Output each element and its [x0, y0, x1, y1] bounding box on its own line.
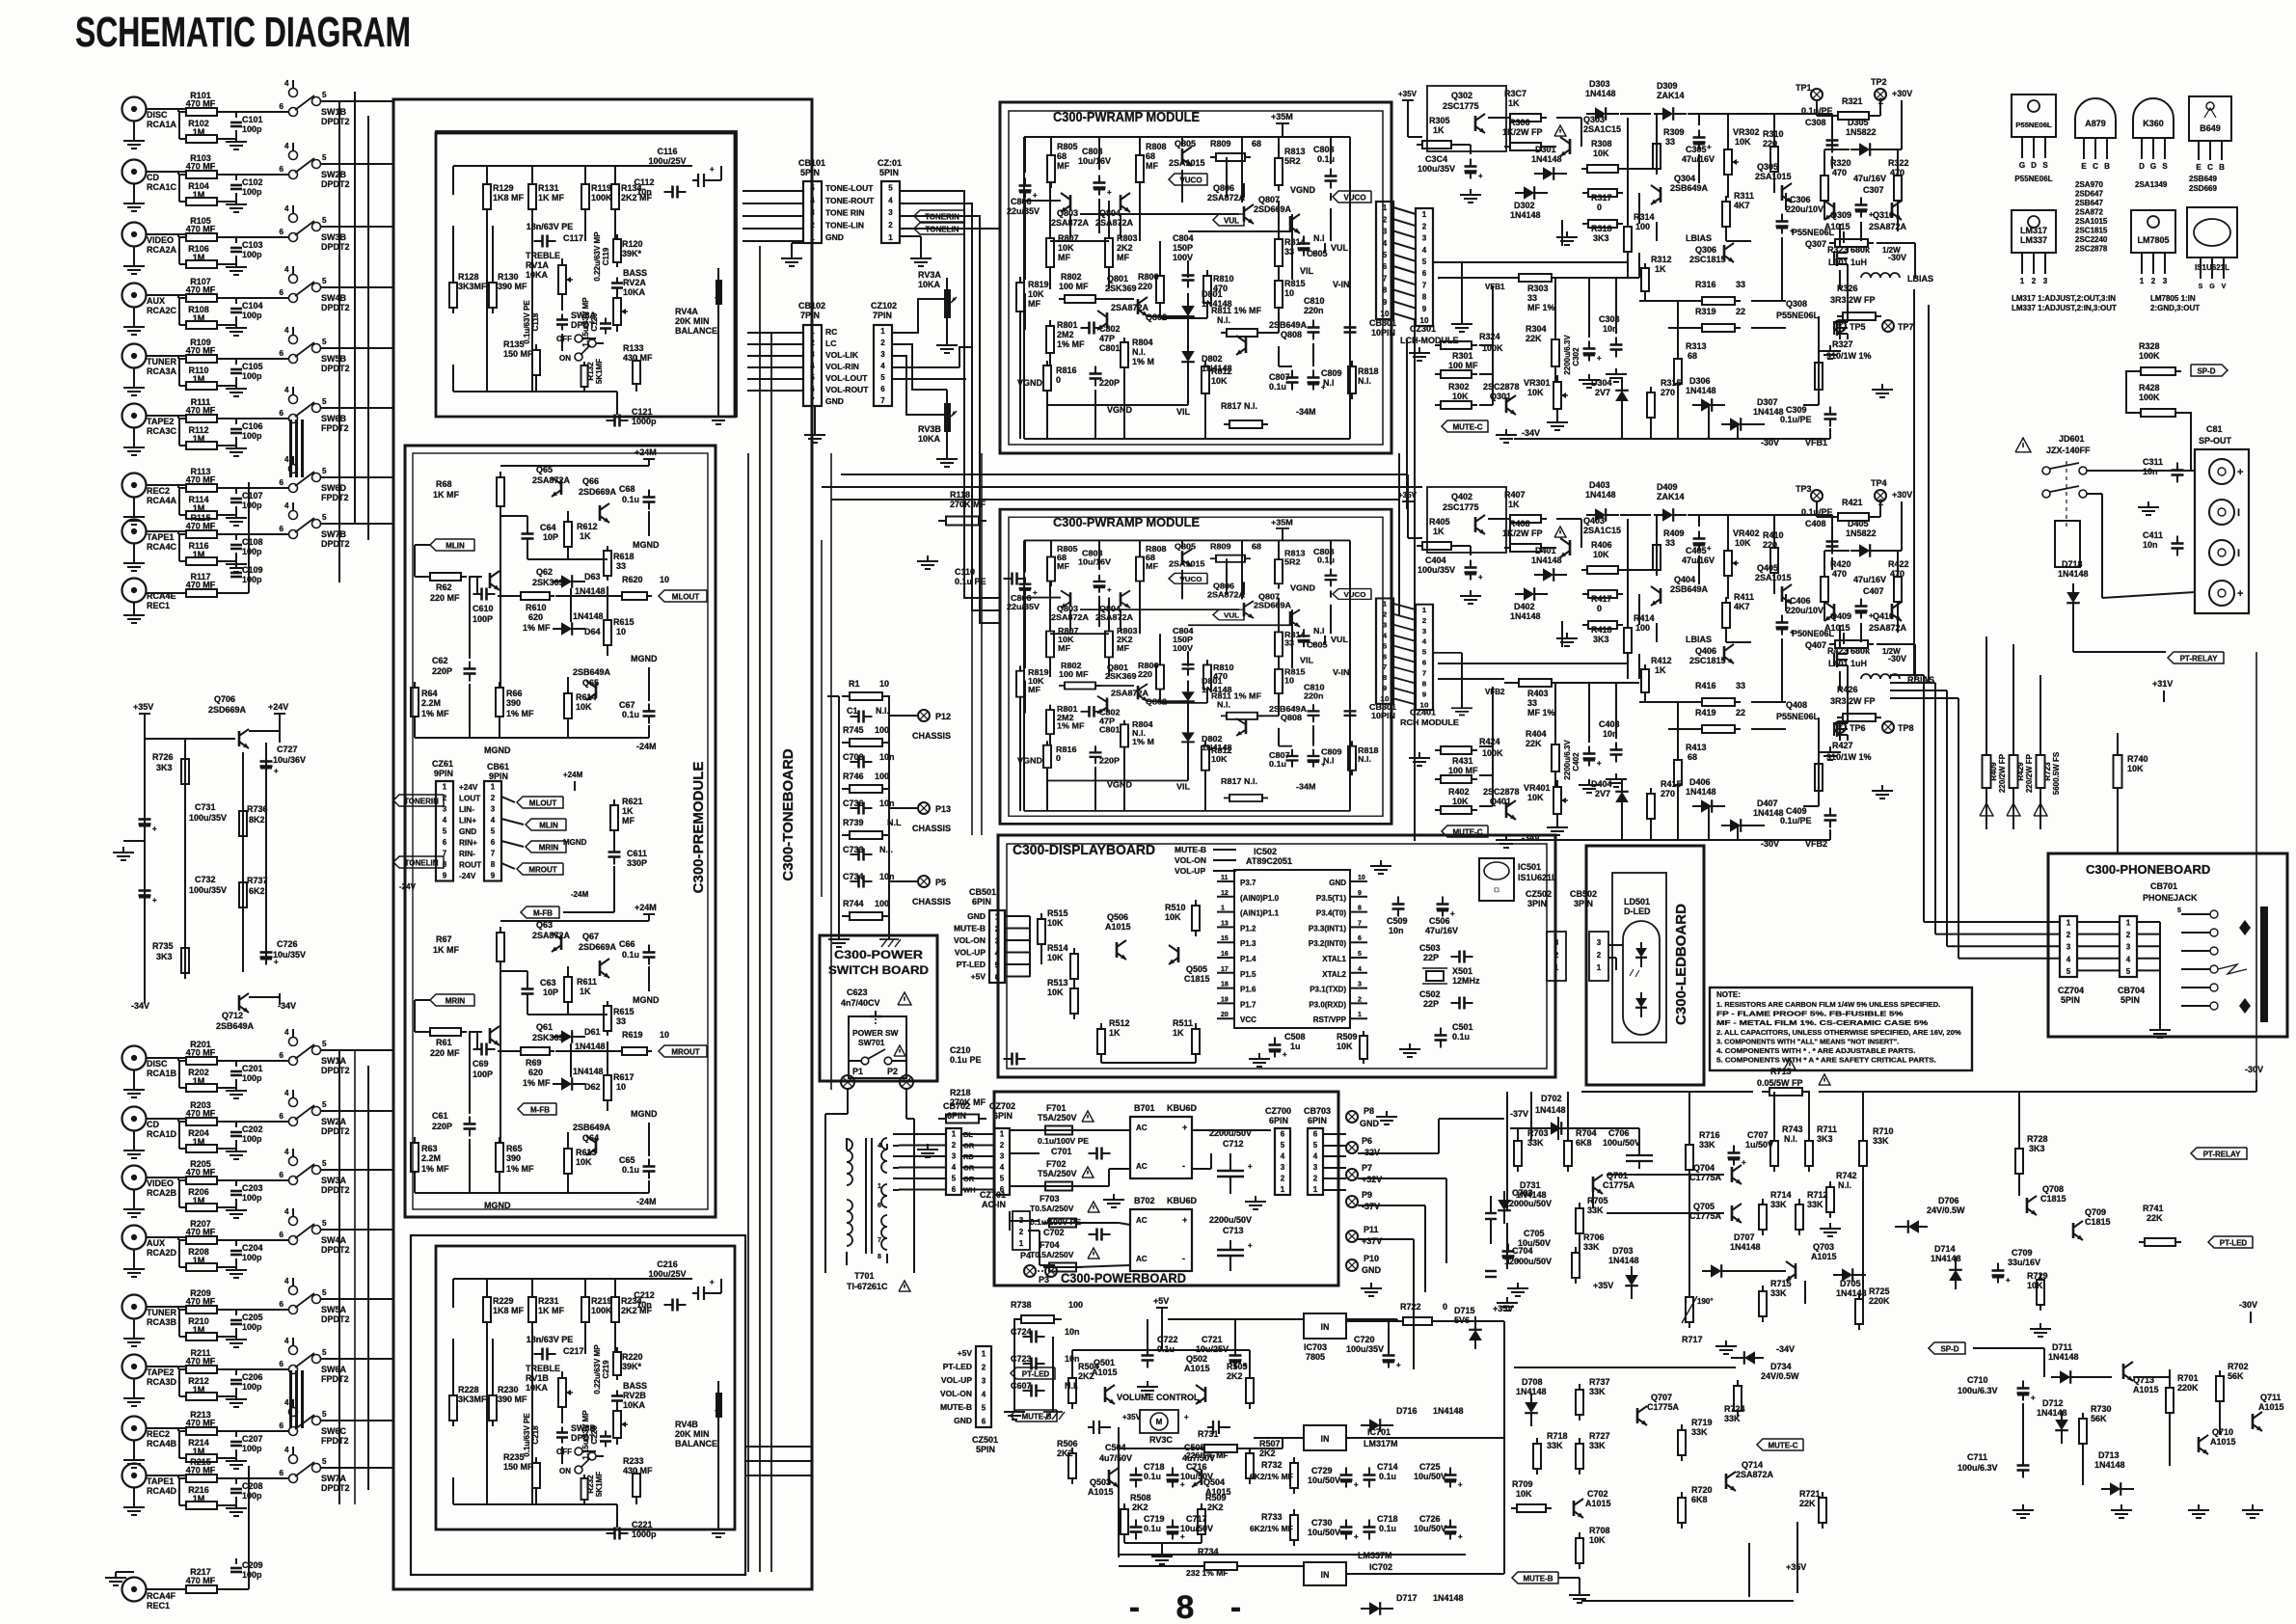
test point TP5 [1834, 320, 1846, 332]
svg-text:100 MF: 100 MF [1448, 361, 1478, 370]
svg-text:VOL-UP: VOL-UP [1175, 866, 1205, 876]
capacitor N.I [1349, 704, 1351, 711]
svg-text:Q66: Q66 [582, 476, 599, 486]
svg-text:3R3 2W FP: 3R3 2W FP [1830, 696, 1876, 706]
svg-text:R804: R804 [1132, 719, 1153, 728]
svg-text:10K: 10K [1165, 912, 1181, 922]
ground [1829, 345, 1831, 351]
svg-text:D708: D708 [1522, 1377, 1543, 1387]
svg-text:R406: R406 [1591, 540, 1612, 550]
wire [1040, 944, 1042, 964]
svg-text:A1015: A1015 [1088, 1487, 1114, 1497]
svg-text:1N4148: 1N4148 [1753, 808, 1784, 818]
svg-text:1% M: 1% M [1132, 737, 1154, 745]
svg-text:R733: R733 [1261, 1512, 1283, 1522]
capacitor C806 [1024, 178, 1026, 186]
test point TP2 [1875, 490, 1886, 501]
svg-text:R744: R744 [843, 899, 864, 908]
svg-text:D712: D712 [2042, 1398, 2064, 1408]
svg-text:DPDT2: DPDT2 [321, 303, 350, 312]
svg-text:1: 1 [2020, 277, 2025, 285]
svg-text:6PIN: 6PIN [972, 897, 991, 907]
svg-text:A879: A879 [2085, 119, 2106, 128]
svg-text:+: + [1742, 1158, 1746, 1167]
svg-text:2: 2 [2032, 277, 2037, 285]
svg-text:0.22u/63V MP: 0.22u/63V MP [593, 231, 602, 282]
svg-text:C305: C305 [1686, 145, 1707, 154]
svg-text:R410: R410 [1763, 530, 1784, 540]
svg-text:2SC1775: 2SC1775 [1443, 101, 1479, 111]
svg-text:MRIN: MRIN [446, 996, 466, 1005]
svg-text:39K*: 39K* [622, 249, 642, 258]
wire driver rails [1438, 277, 1504, 279]
svg-text:POWER SW: POWER SW [852, 1028, 899, 1038]
wire [453, 1278, 692, 1280]
svg-text:MF: MF [1146, 561, 1158, 570]
ground [133, 1204, 135, 1209]
svg-text:C1815: C1815 [2085, 1217, 2111, 1227]
svg-text:+: + [2237, 588, 2243, 600]
svg-text:C208: C208 [242, 1481, 263, 1491]
ground [133, 1263, 135, 1269]
svg-text:5: 5 [1281, 1141, 1285, 1150]
svg-text:PT-RELAY: PT-RELAY [2203, 1150, 2241, 1158]
svg-text:1000p: 1000p [632, 417, 657, 426]
svg-text:Q703: Q703 [1813, 1242, 1834, 1252]
svg-text:KBU6D: KBU6D [1167, 1196, 1198, 1205]
ground [1013, 1406, 1015, 1412]
svg-text:A1015: A1015 [1184, 1364, 1210, 1373]
svg-text:10K: 10K [1593, 550, 1609, 559]
svg-text:RCA3A: RCA3A [147, 366, 177, 376]
capacitor C802 [1081, 711, 1090, 713]
svg-text:2200u/6.3V: 2200u/6.3V [1563, 335, 1572, 375]
capacitor C208 [235, 1478, 237, 1484]
svg-text:10K: 10K [1028, 289, 1044, 299]
svg-text:100u/50V: 100u/50V [1603, 1138, 1640, 1148]
svg-text:10n: 10n [879, 872, 895, 881]
ground [122, 847, 124, 853]
svg-text:LM7805 1:IN: LM7805 1:IN [2150, 294, 2196, 303]
svg-text:+35M: +35M [1271, 518, 1293, 527]
svg-text:C701: C701 [1051, 1147, 1072, 1156]
svg-text:DPDT: DPDT [571, 1433, 595, 1443]
svg-text:R704: R704 [1576, 1128, 1597, 1138]
svg-text:100: 100 [875, 725, 889, 735]
svg-text:3: 3 [2126, 943, 2131, 952]
svg-text:2SD669: 2SD669 [2189, 184, 2217, 193]
svg-text:8: 8 [1383, 674, 1387, 682]
svg-text:C407: C407 [1863, 586, 1884, 596]
capacitor C805 N.I [1303, 236, 1305, 244]
left bus bank A [354, 92, 356, 524]
svg-text:DPDT2: DPDT2 [321, 1314, 350, 1324]
svg-text:R815: R815 [1284, 667, 1306, 676]
svg-text:R119: R119 [591, 183, 611, 193]
svg-text:R62: R62 [436, 582, 452, 592]
ground [1588, 374, 1590, 380]
svg-text:1: 1 [1358, 1012, 1362, 1018]
svg-text:10K: 10K [1211, 376, 1228, 386]
svg-text:+: + [1180, 1480, 1185, 1489]
phone jack contacts [2210, 910, 2218, 918]
svg-text:1N4148: 1N4148 [1836, 1288, 1867, 1298]
svg-text:10: 10 [1284, 676, 1294, 685]
svg-text:IN: IN [1321, 1570, 1330, 1580]
svg-text:R120: R120 [622, 239, 643, 249]
connector CZ501 6PIN [976, 1346, 991, 1427]
svg-text:3R3 2W FP: 3R3 2W FP [1830, 295, 1876, 305]
svg-text:A1015: A1015 [1585, 1499, 1611, 1508]
capacitor C202 [235, 1122, 237, 1127]
svg-text:Q806: Q806 [1213, 183, 1234, 193]
svg-text:A1015: A1015 [2210, 1437, 2236, 1447]
svg-text:R819: R819 [1028, 280, 1049, 289]
svg-text:C107: C107 [242, 491, 263, 501]
svg-text:R128: R128 [458, 272, 479, 282]
svg-text:2:GND,3:OUT: 2:GND,3:OUT [2150, 304, 2200, 312]
wire [415, 544, 430, 546]
capacitor C206 [235, 1369, 237, 1375]
crystal X501 [1426, 971, 1444, 981]
svg-text:9: 9 [1422, 305, 1427, 313]
svg-text:10PIN: 10PIN [1371, 711, 1395, 719]
svg-text:7: 7 [1422, 669, 1426, 677]
svg-text:100p: 100p [242, 1570, 262, 1580]
svg-text:+: + [1707, 544, 1712, 553]
svg-text:10P: 10P [543, 988, 558, 997]
svg-text:2SC1775: 2SC1775 [1443, 502, 1479, 512]
svg-text:CHASSIS: CHASSIS [912, 897, 951, 907]
svg-text:4: 4 [284, 1207, 289, 1216]
svg-text:R509: R509 [1337, 1032, 1358, 1042]
svg-text:D403: D403 [1589, 480, 1610, 490]
svg-text:R515: R515 [1047, 908, 1068, 918]
svg-text:CB702: CB702 [943, 1101, 970, 1111]
svg-text:R705: R705 [1587, 1196, 1608, 1205]
svg-text:D305: D305 [1848, 118, 1869, 127]
resistor R229 [486, 1279, 488, 1296]
svg-text:-: - [1182, 1161, 1185, 1171]
svg-text:10K: 10K [1593, 149, 1609, 158]
svg-text:VOL-ON: VOL-ON [940, 1389, 972, 1398]
svg-text:JZX-140FF: JZX-140FF [2046, 446, 2091, 455]
svg-text:100p: 100p [242, 1134, 262, 1144]
svg-text:VOL-LOUT: VOL-LOUT [825, 373, 868, 383]
svg-text:+: + [1478, 172, 1483, 180]
svg-text:D303: D303 [1589, 79, 1610, 89]
svg-text:2: 2 [1554, 951, 1559, 960]
wire P pins to bottom right [1358, 1152, 1439, 1154]
svg-text:1N5822: 1N5822 [1846, 528, 1877, 538]
svg-text:SW1B: SW1B [321, 107, 347, 117]
svg-text:SWITCH BOARD: SWITCH BOARD [828, 963, 929, 977]
svg-text:D409: D409 [1657, 482, 1678, 492]
board box tone L outer [436, 131, 737, 417]
svg-text:VGND: VGND [1107, 405, 1133, 415]
svg-text:C104: C104 [242, 301, 263, 311]
svg-text:C734: C734 [843, 872, 864, 881]
board box C300-PWRAMP MODULE [1000, 509, 1391, 824]
svg-text:Q67: Q67 [582, 932, 599, 941]
svg-text:C706: C706 [1608, 1128, 1630, 1138]
board box C300-LEDBOARD [1586, 846, 1704, 1085]
net label PT-LED [1011, 1367, 1055, 1379]
resistor R816 [1046, 741, 1048, 744]
svg-text:REC1: REC1 [147, 1601, 170, 1610]
svg-text:2SC2878: 2SC2878 [2075, 245, 2108, 254]
svg-text:I: I [2237, 507, 2240, 519]
svg-text:4: 4 [878, 1143, 881, 1150]
switch SW701 POWER SW box [849, 1016, 906, 1078]
svg-text:CB701: CB701 [2150, 881, 2177, 891]
svg-text:220P: 220P [1099, 756, 1120, 765]
svg-text:D306: D306 [1689, 376, 1711, 386]
svg-text:D402: D402 [1514, 602, 1535, 611]
svg-text:13: 13 [1221, 920, 1229, 927]
RCA jack RCA1C [122, 160, 147, 184]
svg-text:5: 5 [322, 91, 327, 99]
svg-text:5: 5 [2177, 907, 2181, 914]
svg-text:CB102: CB102 [798, 301, 825, 311]
svg-text:R725: R725 [1869, 1286, 1890, 1296]
svg-text:2SB647: 2SB647 [2075, 199, 2103, 207]
svg-text:FPDT2: FPDT2 [321, 1374, 349, 1384]
svg-text:5600.5W FS: 5600.5W FS [2052, 751, 2061, 795]
resistor R819 [1019, 665, 1021, 670]
svg-text:CB502: CB502 [1570, 889, 1597, 899]
svg-text:R506: R506 [1057, 1439, 1078, 1448]
svg-text:3: 3 [1358, 982, 1362, 988]
capacitor C806 [1024, 578, 1026, 584]
wire mid horizontals [841, 474, 1408, 475]
svg-text:S: S [2162, 162, 2168, 171]
svg-text:RCA4F: RCA4F [147, 1591, 176, 1601]
svg-text:4: 4 [284, 1148, 289, 1156]
ground [1829, 1223, 1831, 1229]
svg-text:OFF: OFF [556, 1448, 572, 1456]
svg-text:R301: R301 [1452, 351, 1473, 361]
svg-text:100u/25V: 100u/25V [648, 1269, 686, 1279]
svg-text:1: 1 [1221, 906, 1225, 912]
svg-text:R810: R810 [1213, 274, 1234, 284]
svg-text:100p: 100p [242, 1322, 262, 1332]
svg-text:VCC: VCC [1240, 1015, 1256, 1024]
svg-text:C300-PWRAMP MODULE: C300-PWRAMP MODULE [1053, 516, 1200, 529]
svg-text:P1.3: P1.3 [1240, 939, 1256, 948]
svg-text:+35M: +35M [1271, 112, 1293, 122]
svg-text:CZ:01: CZ:01 [878, 158, 902, 168]
svg-text:5: 5 [1422, 648, 1426, 656]
svg-text:Q405: Q405 [1757, 563, 1778, 573]
ground [235, 553, 237, 558]
svg-text:RV2B: RV2B [623, 1391, 646, 1400]
svg-text:C300-PHONEBOARD: C300-PHONEBOARD [2086, 862, 2210, 877]
svg-text:LM317 1:ADJUST,2:OUT,3:IN: LM317 1:ADJUST,2:OUT,3:IN [2012, 294, 2116, 303]
svg-text:R806: R806 [1138, 661, 1159, 669]
svg-text:C217: C217 [563, 1346, 584, 1356]
resistor R816 [1046, 361, 1048, 365]
resistor R818 [1351, 741, 1353, 745]
svg-text:Q808: Q808 [1281, 330, 1302, 339]
svg-text:R134: R134 [621, 183, 642, 193]
board box C300-DISPLAYBOARD [998, 835, 1555, 1077]
svg-text:220K: 220K [1869, 1296, 1890, 1306]
svg-text:VFB1: VFB1 [1485, 283, 1505, 291]
svg-text:-34V: -34V [1776, 1344, 1795, 1354]
svg-text:-30V: -30V [1888, 654, 1906, 663]
inner box ledboard [1612, 873, 1666, 1042]
svg-text:DPDT2: DPDT2 [321, 1245, 350, 1255]
svg-text:5PIN: 5PIN [2120, 995, 2140, 1005]
resistor R403 [1513, 682, 1519, 684]
svg-text:VR401: VR401 [1524, 783, 1551, 793]
svg-text:100: 100 [875, 899, 889, 908]
wire [1393, 604, 1416, 609]
svg-text:1: 1 [995, 912, 1000, 921]
svg-text:1. RESISTORS ARE CARBON FILM 1: 1. RESISTORS ARE CARBON FILM 1/4W 5% UNL… [1716, 1000, 1940, 1009]
svg-text:4: 4 [284, 79, 289, 88]
svg-text:1N4148: 1N4148 [1730, 1242, 1761, 1252]
capacitor C104 [235, 298, 237, 304]
svg-text:R509: R509 [1205, 1493, 1227, 1502]
svg-text:C708: C708 [843, 752, 864, 762]
svg-text:68: 68 [1252, 542, 1261, 551]
svg-text:TP3: TP3 [1796, 484, 1812, 494]
svg-text:IC701: IC701 [1367, 1427, 1391, 1437]
svg-text:100p: 100p [242, 124, 262, 134]
ground [1147, 1381, 1148, 1387]
svg-text:910/1W 1%: 910/1W 1% [1826, 351, 1872, 361]
svg-text:1K: 1K [1508, 98, 1520, 108]
svg-text:9: 9 [491, 872, 496, 880]
svg-text:FPDT2: FPDT2 [321, 493, 349, 502]
svg-text:+: + [1354, 1532, 1359, 1541]
resistor R303 [1513, 277, 1519, 279]
svg-text:1K8 MF: 1K8 MF [493, 1306, 525, 1315]
wire switch stubs bank B [320, 1049, 393, 1051]
svg-text:SW4B: SW4B [321, 293, 347, 303]
svg-text:16: 16 [1221, 951, 1229, 958]
ground [133, 198, 135, 203]
svg-text:IC703: IC703 [1304, 1342, 1327, 1352]
svg-text:10K: 10K [1527, 388, 1544, 397]
svg-text:1: 1 [888, 233, 893, 242]
svg-text:5: 5 [322, 338, 327, 346]
chassis ground [888, 934, 890, 939]
wire [2087, 470, 2195, 472]
svg-text:6: 6 [280, 228, 284, 236]
svg-text:4: 4 [284, 1398, 289, 1407]
svg-text:A1015: A1015 [1092, 1367, 1118, 1377]
svg-text:RCA2D: RCA2D [147, 1248, 177, 1258]
svg-text:-24M: -24M [571, 890, 589, 899]
svg-text:3: 3 [1554, 938, 1559, 947]
svg-text:N.I.: N.I. [1358, 754, 1371, 763]
svg-text:4: 4 [284, 142, 289, 150]
svg-text:R412: R412 [1651, 656, 1672, 665]
svg-text:C804: C804 [1173, 233, 1194, 243]
svg-text:68: 68 [1688, 752, 1697, 762]
svg-text:C404: C404 [1425, 555, 1446, 565]
board box C300-POWER SWITCH BOARD [820, 935, 937, 1081]
svg-text:C809: C809 [1321, 368, 1342, 378]
svg-text:7: 7 [1383, 274, 1388, 283]
svg-text:MUTE-B: MUTE-B [1523, 1574, 1553, 1583]
test point TP2 [1875, 89, 1886, 100]
svg-text:R416: R416 [1695, 681, 1716, 690]
RCA jack RCA2A [122, 223, 147, 247]
capacitor C201 [235, 1061, 237, 1067]
ground [946, 339, 948, 345]
board box tone R outer [411, 1235, 745, 1575]
svg-text:+: + [1707, 143, 1712, 151]
svg-text:MF: MF [1057, 561, 1069, 570]
svg-text:P55NE06L: P55NE06L [2014, 175, 2052, 183]
wire [146, 294, 186, 296]
resistor R62 [424, 576, 430, 578]
svg-text:VUL: VUL [1224, 216, 1239, 225]
svg-text:1% MF: 1% MF [1057, 339, 1085, 349]
svg-text:GND: GND [1362, 1265, 1382, 1275]
wire [146, 233, 186, 235]
svg-text:R228: R228 [458, 1385, 479, 1394]
svg-text:5: 5 [322, 1410, 327, 1419]
capacitor C801 220P [1094, 366, 1096, 374]
svg-text:P3.1(TXD): P3.1(TXD) [1310, 986, 1346, 994]
svg-text:IN: IN [1321, 1322, 1330, 1332]
svg-text:VIDEO: VIDEO [147, 1178, 174, 1188]
net label M-FB [518, 1103, 556, 1115]
svg-text:3: 3 [1313, 1163, 1318, 1172]
svg-text:10: 10 [1381, 310, 1390, 318]
svg-text:1: 1 [1422, 606, 1426, 613]
svg-text:C623: C623 [847, 988, 868, 997]
resistor R409 220/2W FP [1985, 747, 1987, 755]
svg-text:68: 68 [1146, 553, 1155, 561]
svg-text:R129: R129 [493, 183, 514, 193]
svg-text:10n: 10n [879, 752, 895, 762]
svg-text:Q707: Q707 [1651, 1393, 1672, 1402]
svg-text:1N4148: 1N4148 [1585, 89, 1616, 98]
svg-text:Q705: Q705 [1693, 1202, 1715, 1211]
svg-text:6K8: 6K8 [1576, 1138, 1592, 1148]
wire top rail [1024, 539, 1350, 541]
svg-text:VR302: VR302 [1733, 127, 1760, 137]
svg-text:1N4148: 1N4148 [1510, 611, 1541, 621]
svg-text:A1015: A1015 [1105, 922, 1131, 932]
svg-text:1: 1 [2126, 918, 2131, 927]
svg-text:CZ501: CZ501 [972, 1435, 998, 1445]
svg-text:C1775A: C1775A [1603, 1180, 1635, 1190]
svg-text:3: 3 [810, 350, 815, 359]
svg-text:C1: C1 [847, 706, 858, 716]
svg-text:33K: 33K [1589, 1387, 1606, 1396]
svg-text:150 MF: 150 MF [503, 349, 533, 359]
svg-text:D734: D734 [1770, 1362, 1792, 1371]
svg-text:VGND: VGND [1290, 583, 1315, 592]
resistor R219 [584, 1279, 586, 1296]
svg-text:1N4148: 1N4148 [1753, 407, 1784, 417]
connector CB301 10PIN [1376, 598, 1393, 703]
net label PT-LED [2208, 1236, 2253, 1248]
capacitor C805 N.I [1303, 629, 1305, 636]
svg-text:MF 1%: MF 1% [1527, 708, 1555, 717]
RCA jack RCA4E REC1 [122, 579, 147, 603]
svg-text:Q404: Q404 [1674, 575, 1695, 584]
wire channel verticals [1398, 453, 1400, 615]
svg-text:R405: R405 [1429, 517, 1450, 527]
